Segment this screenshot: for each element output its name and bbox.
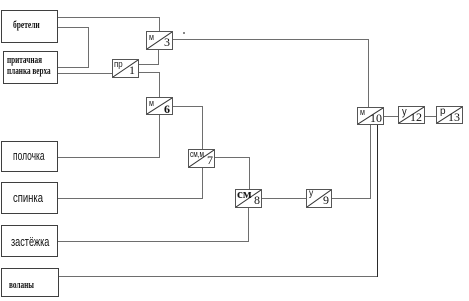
wire op3 to op10 top bbox=[173, 39, 369, 40]
wire op12 to op13 bbox=[425, 116, 437, 117]
wire спинка to op7 bottom bbox=[58, 198, 203, 199]
op-box 7 (см,м) bbox=[188, 149, 215, 168]
wire op1 to op6 top bbox=[138, 72, 160, 73]
box полочка bbox=[1, 141, 58, 172]
op-box 10 (м) bbox=[357, 107, 384, 125]
wire притачная to op1 bbox=[58, 73, 113, 74]
op-box 12 (у) bbox=[398, 106, 425, 124]
op-box 8 (см) bbox=[235, 189, 262, 208]
op-box 3 (м) bbox=[146, 31, 173, 50]
wire op9 to op10 bottom bbox=[332, 198, 371, 199]
stray dot bbox=[183, 32, 185, 34]
op-box 13 (р) bbox=[436, 106, 463, 124]
box притачная планка верха bbox=[3, 51, 58, 84]
wire бретели to op3 top bbox=[58, 17, 160, 18]
wire полочка to op6 bottom bbox=[58, 157, 160, 158]
wire op1 to op3 bottom bbox=[138, 64, 159, 65]
wire бретели lower to притачная bbox=[58, 27, 89, 28]
wire op6 to op7 top bbox=[172, 106, 203, 107]
op-box 1 (пр) bbox=[112, 59, 139, 78]
op-box 9 (у) bbox=[306, 189, 332, 208]
wire op7 to op8 top bbox=[214, 157, 250, 158]
box застёжка bbox=[1, 225, 58, 257]
box бретели bbox=[1, 10, 58, 43]
wire op8 to op9 bbox=[261, 198, 306, 199]
box воланы bbox=[1, 268, 59, 297]
op-box 6 (м) bbox=[146, 97, 173, 115]
wire застёжка to op8 bottom bbox=[58, 241, 249, 242]
wire op10 to op12 bbox=[383, 116, 398, 117]
box спинка bbox=[1, 182, 58, 214]
wire воланы to op10 bottom bbox=[59, 276, 378, 277]
